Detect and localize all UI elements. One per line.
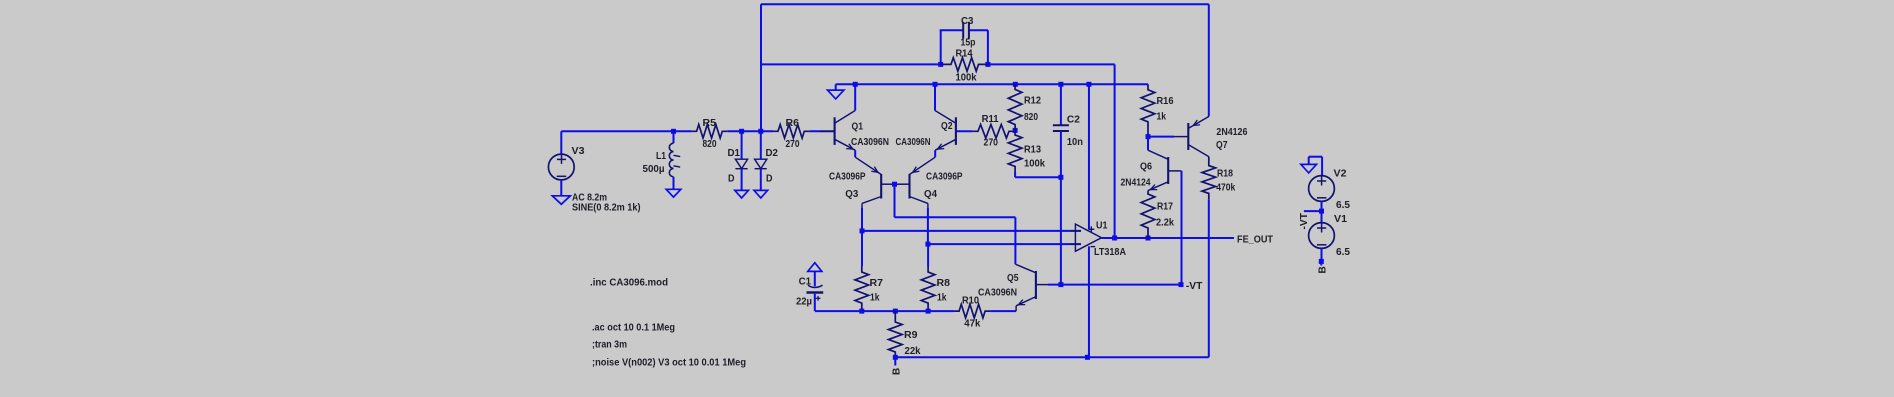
- label Q2: [941, 121, 953, 132]
- node C2-R13: [1058, 175, 1063, 180]
- wire Q1 collector: [854, 84, 856, 110]
- ground V3: [552, 196, 570, 205]
- value 100k R13: [1024, 158, 1045, 169]
- value 2N4126: [1216, 127, 1247, 138]
- resistor R6: [773, 125, 809, 139]
- node Q1 collector: [853, 82, 858, 87]
- svg-text:C2: C2: [1067, 114, 1080, 125]
- label C3: [961, 16, 974, 27]
- resistor R8: [921, 266, 935, 311]
- svg-text:SINE(0 8.2m 1k): SINE(0 8.2m 1k): [572, 203, 641, 214]
- wire C3 right: [969, 30, 988, 64]
- wire Q3 collector: [861, 208, 863, 231]
- ground V2: [1301, 157, 1322, 176]
- label R9: [904, 330, 918, 341]
- svg-text:.ac oct 10 0.1 1Meg: .ac oct 10 0.1 1Meg: [592, 323, 675, 334]
- value 270: [786, 139, 800, 150]
- label R17: [1157, 201, 1173, 212]
- ground L1: [666, 189, 681, 197]
- net FE_OUT: [1237, 235, 1273, 246]
- value 6.5 V1: [1336, 247, 1350, 258]
- svg-text:D1: D1: [728, 148, 741, 159]
- svg-text:470k: 470k: [1216, 182, 1235, 193]
- svg-text:2N4126: 2N4126: [1216, 127, 1247, 138]
- svg-text:10n: 10n: [1067, 137, 1083, 148]
- ground at rail left: [828, 84, 844, 99]
- wire tail rail: [815, 310, 954, 312]
- svg-text:R12: R12: [1024, 95, 1041, 106]
- wire feedback row right: [988, 63, 1115, 65]
- transistor Q3: [855, 157, 894, 210]
- resistor R11: [972, 125, 1015, 139]
- value 47k: [964, 318, 980, 329]
- svg-text:2N4124: 2N4124: [1121, 177, 1151, 188]
- value CA3096N Q2: [896, 137, 931, 148]
- wire to opamp plus: [862, 230, 1081, 232]
- value 22u: [796, 296, 812, 307]
- label R16: [1157, 96, 1174, 107]
- value 1k R16: [1157, 111, 1167, 122]
- label Q7: [1216, 140, 1228, 151]
- wire D1 bottom: [741, 169, 743, 191]
- svg-text:CA3096P: CA3096P: [926, 171, 963, 182]
- value 22k: [905, 346, 921, 357]
- directive tran: [592, 340, 627, 351]
- wire V2 bottom: [1321, 201, 1323, 211]
- node Q5 base C2: [1058, 282, 1063, 287]
- node R12 top: [1013, 82, 1018, 87]
- wire C2 bottom: [1060, 131, 1062, 177]
- node R9 top: [893, 309, 898, 314]
- node R14 left: [938, 62, 943, 67]
- wire bottom rail: [895, 356, 1209, 358]
- transistor Q6: [1148, 150, 1182, 190]
- svg-text:C1: C1: [799, 276, 812, 287]
- wire opamp V+: [1088, 84, 1090, 229]
- node R14 right: [985, 62, 990, 67]
- op-amp U1: [1071, 224, 1102, 251]
- svg-text:-VT: -VT: [1299, 213, 1310, 230]
- label U1: [1096, 220, 1108, 231]
- node R16 bottom: [1146, 134, 1151, 139]
- transistor Q7: [1174, 117, 1209, 157]
- wire R10 to Q5: [990, 310, 1016, 312]
- wire C2 top lead: [1060, 84, 1062, 125]
- value 10n: [1067, 137, 1083, 148]
- svg-text:L1: L1: [656, 151, 666, 162]
- svg-text:;noise V(n002) V3 oct 10 0.01: ;noise V(n002) V3 oct 10 0.01 1Meg: [592, 358, 746, 369]
- value D2 D: [766, 173, 773, 184]
- value 500u: [643, 164, 665, 175]
- value 1k R7: [870, 292, 880, 303]
- capacitor C2: [1053, 125, 1069, 131]
- wire -VT stub: [1304, 210, 1322, 212]
- svg-text:V3: V3: [572, 146, 585, 157]
- label R6: [786, 118, 800, 129]
- value 470k: [1216, 182, 1235, 193]
- svg-text:1k: 1k: [1157, 111, 1167, 122]
- node Vminus rail: [1085, 355, 1090, 360]
- wire left vertical to input node: [760, 4, 762, 131]
- ground C1: [808, 263, 822, 287]
- node C2 top: [1058, 82, 1063, 87]
- wire V3 to R5: [561, 130, 691, 132]
- label V3: [572, 146, 585, 157]
- wire R7 upper: [861, 231, 863, 266]
- wire Q5 base row: [1048, 284, 1181, 286]
- transistor Q2: [935, 111, 956, 151]
- svg-text:R11: R11: [982, 114, 999, 125]
- wire feedback row left: [761, 63, 941, 65]
- node R9 bottom B: [893, 355, 898, 366]
- label R11: [982, 114, 999, 125]
- diode D1: [735, 159, 747, 169]
- svg-text:820: 820: [703, 139, 717, 150]
- node Q2 collector: [933, 82, 938, 87]
- wire R6 to Q1 base: [809, 130, 834, 132]
- node output R17: [1146, 236, 1151, 241]
- wire V1 top: [1321, 211, 1323, 223]
- node -VT junction: [1179, 282, 1184, 287]
- wire top feedback loop: [761, 3, 1209, 5]
- wire output: [1102, 237, 1235, 239]
- svg-text:V1: V1: [1334, 214, 1347, 225]
- value 2.2k: [1156, 217, 1174, 228]
- wire V3 top: [560, 131, 562, 154]
- svg-text:Q4: Q4: [924, 189, 937, 200]
- svg-text:R10: R10: [962, 295, 979, 306]
- label R14: [956, 48, 973, 59]
- transistor Q1: [820, 111, 855, 151]
- node Q4 col: [925, 242, 930, 247]
- wire L1 bottom: [673, 177, 675, 190]
- svg-text:Q2: Q2: [941, 121, 953, 132]
- svg-text:500µ: 500µ: [643, 164, 665, 175]
- net -VT: [1186, 281, 1203, 292]
- inductor L1: [669, 143, 680, 177]
- svg-text:FE_OUT: FE_OUT: [1237, 235, 1273, 246]
- svg-text:D: D: [766, 173, 773, 184]
- value 6.5 V2: [1336, 200, 1350, 211]
- value SINE: [572, 203, 641, 214]
- svg-text:D: D: [728, 173, 735, 184]
- node L1 top: [671, 129, 676, 134]
- label R5: [703, 118, 717, 129]
- svg-text:Q5: Q5: [1007, 273, 1019, 284]
- wire D2 top: [760, 131, 762, 159]
- ground D1: [735, 190, 749, 198]
- resistor R10: [954, 304, 990, 318]
- resistor R14: [941, 58, 988, 72]
- label C2: [1067, 114, 1080, 125]
- resistor R18: [1202, 157, 1216, 200]
- wire R5 to R6: [727, 130, 773, 132]
- wire feedback vertical to output: [1114, 64, 1116, 238]
- wire R8 upper: [927, 244, 929, 266]
- resistor R7: [855, 266, 869, 311]
- node Q3 col: [860, 228, 865, 233]
- svg-text:R7: R7: [870, 278, 884, 289]
- net B left: [891, 368, 902, 375]
- resistor R5: [692, 125, 728, 139]
- node R7 bottom: [859, 309, 864, 314]
- label R7: [870, 278, 884, 289]
- label D2: [766, 148, 779, 159]
- svg-text:CA3096N: CA3096N: [978, 287, 1017, 298]
- svg-text:22µ: 22µ: [796, 296, 812, 307]
- wire Q2 base: [956, 130, 972, 132]
- wire right vertical to Q7 emitter: [1208, 4, 1210, 116]
- svg-text:B: B: [891, 368, 902, 375]
- value 820: [703, 139, 717, 150]
- wire to opamp minus: [928, 243, 1081, 245]
- label V1: [1334, 214, 1347, 225]
- svg-text:Q1: Q1: [852, 121, 864, 132]
- label L1: [656, 151, 666, 162]
- value 820 R12: [1024, 112, 1038, 123]
- label R10: [962, 295, 979, 306]
- wire opamp V-: [1088, 246, 1090, 357]
- node R8 bottom: [926, 309, 931, 314]
- voltage source V1: [1309, 223, 1335, 249]
- svg-text:D2: D2: [766, 148, 779, 159]
- wire Q6 collector: [1147, 137, 1149, 151]
- net -VT right: [1299, 213, 1310, 230]
- wire base net: [895, 184, 1016, 264]
- voltage source V3: [548, 154, 574, 180]
- wire V3 bottom: [560, 180, 562, 196]
- node D2 top: [758, 129, 763, 134]
- svg-text:R17: R17: [1157, 201, 1173, 212]
- value LT318A: [1094, 247, 1126, 258]
- svg-text:270: 270: [786, 139, 800, 150]
- svg-text:820: 820: [1024, 112, 1038, 123]
- wire C3 left: [940, 30, 964, 64]
- wire Q4 collector: [927, 208, 929, 244]
- label Q5: [1007, 273, 1019, 284]
- svg-text:Q3: Q3: [845, 189, 858, 200]
- wire Q6 base down: [1181, 171, 1183, 285]
- wire C2 node down: [1060, 177, 1062, 284]
- svg-text:R13: R13: [1024, 144, 1041, 155]
- label R8: [937, 278, 951, 289]
- svg-text:100k: 100k: [956, 72, 977, 83]
- node R11-R12-R13: [1013, 128, 1018, 133]
- svg-text:CA3096P: CA3096P: [829, 171, 866, 182]
- svg-text:R8: R8: [937, 278, 951, 289]
- node output feedback: [1112, 236, 1117, 241]
- resistor R13: [1008, 130, 1022, 172]
- value 270 R11: [984, 137, 999, 148]
- svg-text:R6: R6: [786, 118, 800, 129]
- node V1 B: [1319, 259, 1324, 266]
- wire Q2-Q4 emitters: [934, 150, 936, 157]
- svg-text:B: B: [1318, 266, 1329, 273]
- svg-text:U1: U1: [1096, 220, 1108, 231]
- svg-text:1k: 1k: [937, 292, 947, 303]
- voltage source V2: [1309, 176, 1335, 202]
- svg-text:R16: R16: [1157, 96, 1174, 107]
- resistor R17: [1141, 191, 1155, 238]
- svg-text:6.5: 6.5: [1336, 200, 1350, 211]
- capacitor C1: [807, 285, 824, 301]
- wire ground rail: [836, 83, 1148, 85]
- svg-text:6.5: 6.5: [1336, 247, 1350, 258]
- svg-text:LT318A: LT318A: [1094, 247, 1126, 258]
- wire D2 bottom: [760, 169, 762, 191]
- svg-text:47k: 47k: [964, 318, 980, 329]
- svg-text:.inc CA3096.mod: .inc CA3096.mod: [590, 278, 668, 289]
- value AC 8.2m: [572, 193, 607, 204]
- svg-text:CA3096N: CA3096N: [851, 137, 889, 148]
- directive ac: [592, 323, 675, 334]
- svg-text:2.2k: 2.2k: [1156, 217, 1174, 228]
- svg-text:15p: 15p: [961, 37, 976, 48]
- wire V1 bottom: [1321, 248, 1323, 261]
- svg-text:R14: R14: [956, 48, 973, 59]
- label Q1: [852, 121, 864, 132]
- svg-text:22k: 22k: [905, 346, 921, 357]
- node V2-V1: [1319, 209, 1324, 214]
- svg-text:1k: 1k: [870, 292, 880, 303]
- diode D2: [755, 159, 767, 169]
- node opamp V+ rail: [1086, 82, 1091, 87]
- wire C1 bottom: [814, 294, 816, 311]
- svg-text:;tran 3m: ;tran 3m: [592, 340, 627, 351]
- svg-text:270: 270: [984, 137, 999, 148]
- wire R13 bottom: [1015, 172, 1061, 177]
- value 100k: [956, 72, 977, 83]
- label R12: [1024, 95, 1041, 106]
- ground D2: [754, 190, 768, 198]
- resistor R12: [1008, 84, 1022, 130]
- wire L1 top: [673, 131, 675, 143]
- label V2: [1334, 168, 1347, 179]
- wire Q1-Q3 emitters: [854, 150, 856, 157]
- label CA3096P Q3: [829, 171, 866, 182]
- wire D1 top: [741, 131, 743, 159]
- resistor R9: [889, 311, 903, 357]
- net B right: [1318, 266, 1329, 273]
- label CA3096P Q4: [926, 171, 963, 182]
- svg-text:Q6: Q6: [1140, 161, 1152, 172]
- label C1: [799, 276, 812, 287]
- wire Q2 collector: [934, 84, 936, 110]
- value D1 D: [728, 173, 735, 184]
- label R13: [1024, 144, 1041, 155]
- label R18: [1217, 168, 1233, 179]
- svg-text:100k: 100k: [1024, 158, 1045, 169]
- svg-text:R18: R18: [1217, 168, 1233, 179]
- svg-text:CA3096N: CA3096N: [896, 137, 931, 148]
- wire Q7 base: [1148, 136, 1174, 138]
- label Q4: [924, 189, 937, 200]
- label Q3: [845, 189, 858, 200]
- value 1k R8: [937, 292, 947, 303]
- value CA3096N Q5: [978, 287, 1017, 298]
- wire R18 down: [1208, 199, 1210, 357]
- svg-text:R9: R9: [904, 330, 918, 341]
- node Q3-Q4 base: [892, 182, 897, 187]
- label D1: [728, 148, 741, 159]
- svg-text:-VT: -VT: [1186, 281, 1203, 292]
- capacitor C3: [963, 22, 969, 39]
- label Q6: [1140, 161, 1152, 172]
- svg-text:C3: C3: [961, 16, 974, 27]
- transistor Q4: [895, 157, 936, 210]
- directive noise: [592, 358, 746, 369]
- value 2N4124: [1121, 177, 1151, 188]
- value CA3096N Q1: [851, 137, 889, 148]
- svg-text:V2: V2: [1334, 168, 1347, 179]
- transistor Q5: [1015, 264, 1048, 311]
- directive inc: [590, 278, 668, 289]
- value 15p: [961, 37, 976, 48]
- node D1 top: [739, 129, 744, 134]
- svg-text:R5: R5: [703, 118, 717, 129]
- svg-text:Q7: Q7: [1216, 140, 1228, 151]
- resistor R16: [1141, 84, 1155, 136]
